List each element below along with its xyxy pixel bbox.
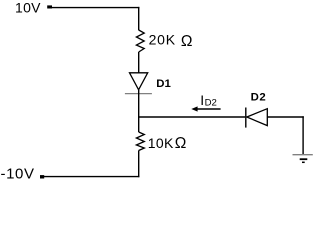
- label I_D2: [200, 92, 217, 109]
- svg-text:I: I: [200, 92, 204, 108]
- ground top bar (gray): [293, 154, 313, 156]
- node dot at 10V terminal: [47, 5, 52, 8]
- wire top vertical down to R 20K: [138, 7, 140, 30]
- wire top horizontal from 10V to corner: [52, 7, 139, 9]
- svg-text:-10V: -10V: [1, 165, 35, 182]
- svg-text:10K: 10K: [148, 135, 174, 151]
- wire middle horizontal from junction to D2 cathode: [139, 116, 246, 118]
- wire from R 10K down to bottom corner: [138, 151, 140, 178]
- ground middle bar: [300, 158, 308, 160]
- diode D2 cathode bar: [245, 108, 247, 128]
- ground bottom bar: [302, 161, 305, 163]
- svg-text:Ω: Ω: [181, 33, 193, 50]
- diode D1 triangle: [130, 73, 148, 90]
- svg-text:10V: 10V: [15, 0, 41, 15]
- svg-text:D1: D1: [156, 78, 171, 90]
- wire from D2 anode to right corner: [267, 116, 304, 118]
- wire right vertical down to ground: [302, 116, 304, 154]
- svg-text:Ω: Ω: [175, 135, 187, 152]
- resistor 20K zigzag: [136, 30, 144, 52]
- wire bottom horizontal to -10V: [44, 176, 139, 178]
- current arrow I_D2 pointing left: [191, 106, 220, 111]
- resistor 10K zigzag: [136, 132, 144, 151]
- wire from R 20K to D1 anode: [138, 52, 140, 73]
- svg-text:20K: 20K: [149, 31, 176, 47]
- diode D1 cathode bar (gray): [125, 93, 152, 95]
- diode D2 triangle: [247, 109, 267, 126]
- node dot at -10V terminal: [40, 175, 44, 178]
- svg-text:D2: D2: [251, 91, 267, 103]
- wire from D1 cathode through junction to R 10K: [138, 90, 140, 132]
- svg-text:D2: D2: [205, 98, 217, 109]
